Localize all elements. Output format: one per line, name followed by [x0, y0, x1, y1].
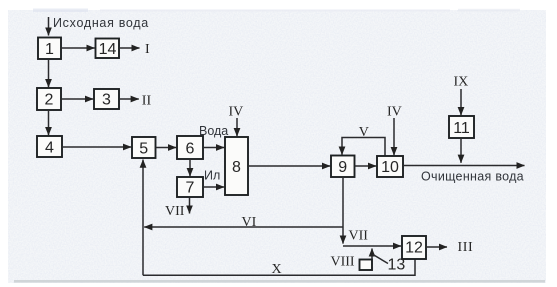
svg-text:3: 3: [102, 92, 111, 109]
svg-text:12: 12: [405, 240, 423, 257]
svg-text:V: V: [359, 125, 369, 140]
wire IX into box11: [460, 89, 462, 115]
wire X from box12 bottom: [143, 259, 415, 275]
svg-text:IX: IX: [454, 74, 469, 89]
wire V loop box10 to box9: [342, 138, 385, 157]
svg-text:8: 8: [232, 159, 241, 176]
svg-text:14: 14: [99, 41, 117, 58]
wire box5 to box6: [156, 147, 177, 149]
box 6: [177, 136, 203, 159]
box 1: [38, 38, 61, 60]
svg-text:4: 4: [45, 140, 54, 157]
wire box7 to box8: [203, 186, 224, 188]
svg-text:7: 7: [186, 180, 195, 197]
svg-text:IV: IV: [229, 105, 244, 120]
wire VII below box7: [189, 198, 191, 214]
wire box2 to box3: [61, 98, 93, 100]
box 10: [377, 156, 403, 177]
svg-text:IV: IV: [387, 105, 402, 120]
svg-text:III: III: [458, 240, 474, 255]
wire VI recycle: [144, 226, 343, 228]
svg-text:11: 11: [453, 120, 470, 137]
svg-text:Ил: Ил: [204, 169, 220, 183]
wire box14 to I: [119, 47, 140, 49]
wire box11 down to output line: [460, 138, 462, 163]
box 13 small: [360, 260, 373, 271]
box 14: [96, 39, 120, 59]
wire box3 to II: [119, 98, 139, 100]
svg-text:9: 9: [338, 159, 347, 176]
svg-text:II: II: [142, 94, 152, 109]
wire IV into box8: [236, 118, 238, 136]
wire box9 down: [342, 177, 344, 244]
wire box1 to box2: [48, 59, 50, 87]
wire box2 to box4: [48, 110, 50, 135]
box 5: [132, 137, 156, 158]
box 9: [331, 156, 355, 178]
svg-text:VI: VI: [242, 215, 257, 230]
svg-text:2: 2: [45, 92, 54, 109]
box 8: [225, 137, 248, 195]
wire box8 to box9: [248, 165, 330, 167]
box 3: [94, 89, 119, 109]
box 4: [37, 136, 62, 157]
svg-text:Исходная вода: Исходная вода: [53, 16, 149, 30]
box 2: [37, 88, 61, 110]
wire box6 to box8: [203, 147, 224, 149]
wire box13 up arrow: [371, 249, 373, 260]
svg-text:Очищенная вода: Очищенная вода: [421, 170, 524, 184]
box 12: [402, 236, 426, 259]
box 7: [177, 177, 203, 197]
wire box9 to box10: [355, 165, 377, 167]
wire box6 to box7: [189, 159, 191, 176]
svg-text:VII: VII: [349, 228, 369, 243]
svg-text:Вода: Вода: [199, 124, 228, 138]
leader line to 13: [373, 255, 388, 264]
svg-text:13: 13: [388, 257, 406, 274]
wire box1 to box14: [61, 47, 95, 49]
svg-text:6: 6: [186, 141, 195, 158]
scan shadow bottom: [14, 280, 545, 283]
svg-text:5: 5: [139, 141, 148, 158]
wire to box12: [343, 245, 401, 247]
wire up into box5: [142, 160, 144, 276]
svg-text:VII: VII: [165, 204, 185, 219]
box 11: [449, 116, 474, 138]
svg-text:X: X: [272, 262, 282, 277]
wire box4 to box5: [62, 146, 131, 148]
svg-text:I: I: [145, 42, 150, 57]
wire into box 1: [48, 17, 50, 36]
scan smudge top: [33, 9, 88, 12]
wire box10 output right: [403, 165, 525, 167]
svg-text:10: 10: [381, 159, 399, 176]
wire IV into box10: [393, 118, 395, 155]
wire box12 to III: [426, 246, 447, 248]
svg-text:1: 1: [45, 41, 54, 58]
svg-text:VIII: VIII: [331, 255, 355, 270]
